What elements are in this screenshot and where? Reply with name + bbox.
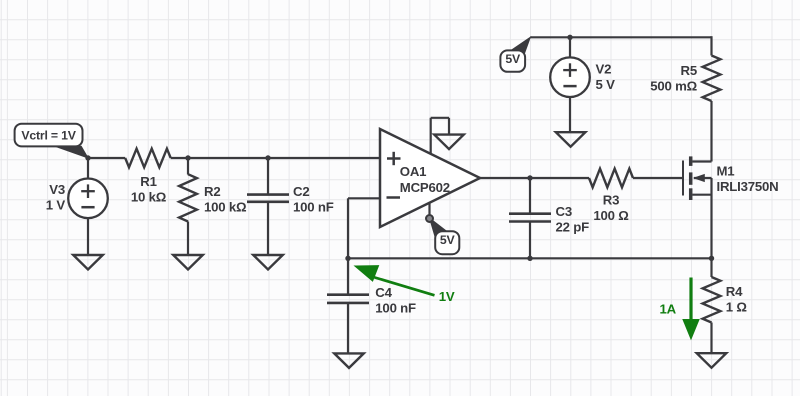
- wire node C to C2: [267, 158, 269, 195]
- label R2: [204, 184, 220, 199]
- svg-text:R4: R4: [726, 284, 743, 299]
- svg-text:5V: 5V: [505, 52, 521, 66]
- value 1 Ohm: [726, 299, 748, 314]
- svg-text:M1: M1: [717, 164, 735, 179]
- wire M1 source to node G: [710, 178, 712, 258]
- resistor R4: [703, 277, 721, 323]
- wire R2 to ground: [187, 222, 189, 256]
- wire C4 to ground: [347, 303, 349, 354]
- svg-text:5 V: 5 V: [596, 77, 616, 92]
- wire inverting input down to node E: [347, 198, 349, 258]
- svg-text:R2: R2: [204, 184, 220, 199]
- svg-text:C4: C4: [375, 285, 392, 300]
- value 5 V: [596, 77, 616, 92]
- net flag 5V top pointer: [511, 37, 530, 55]
- net flag Vctrl pointer: [55, 146, 88, 158]
- node B: [185, 155, 190, 160]
- wire node B to R2: [187, 158, 189, 175]
- op-amp V+ pin node: [426, 215, 433, 222]
- wire R1 to node B: [171, 157, 188, 159]
- net flag 5V at op-amp V+ pin: [435, 231, 459, 254]
- capacitor C2: [247, 195, 289, 202]
- resistor R1: [125, 149, 171, 168]
- wire 5V flag to top right corner: [530, 36, 711, 38]
- annotation arrow 1A: [683, 278, 699, 340]
- wire node D to R3: [530, 177, 589, 179]
- capacitor C4: [327, 295, 369, 303]
- svg-text:1 Ω: 1 Ω: [726, 299, 748, 314]
- node D: [527, 175, 532, 180]
- annotation text 1A: [660, 301, 677, 316]
- net flag 5V top: [500, 50, 525, 71]
- node F: [527, 256, 532, 261]
- op-amp V- pin wire: [431, 118, 449, 154]
- resistor R3: [589, 169, 633, 188]
- label R1: [140, 174, 156, 189]
- ground under V3: [73, 255, 103, 270]
- svg-text:1 V: 1 V: [46, 198, 66, 213]
- wire C2 to ground: [267, 202, 269, 255]
- annotation text 1V: [439, 289, 455, 304]
- wire node H to V2: [569, 37, 571, 58]
- value 500 mOhm: [650, 79, 697, 94]
- svg-text:R1: R1: [140, 174, 156, 189]
- svg-text:22 pF: 22 pF: [556, 220, 590, 235]
- value 100 Ohm: [593, 208, 629, 223]
- resistor R2: [179, 174, 197, 221]
- svg-text:R3: R3: [603, 193, 619, 208]
- label MCP602: [400, 180, 450, 195]
- wire C3 to node F: [529, 222, 531, 259]
- ground under C2: [253, 255, 283, 270]
- value 100 nF: [293, 199, 334, 214]
- node G: [709, 256, 714, 261]
- wire node E to C4: [347, 258, 349, 294]
- svg-text:C3: C3: [556, 204, 572, 219]
- ground at op-amp V- pin: [434, 135, 464, 150]
- label IRLI3750N: [717, 179, 779, 194]
- svg-text:IRLI3750N: IRLI3750N: [717, 179, 779, 194]
- voltage source V3: [68, 179, 108, 219]
- svg-text:100 nF: 100 nF: [293, 199, 334, 214]
- value 100 kOhm: [204, 199, 247, 214]
- svg-text:1V: 1V: [439, 289, 455, 304]
- label OA1: [400, 164, 427, 179]
- wire R5 to M1 drain: [710, 101, 712, 162]
- svg-text:C2: C2: [293, 184, 309, 199]
- wire V2 to ground: [569, 96, 571, 132]
- annotation arrow 1V: [356, 266, 435, 295]
- svg-text:500 mΩ: 500 mΩ: [650, 79, 697, 94]
- wire node C to op-amp noninverting input: [268, 157, 380, 159]
- value 1 V: [46, 198, 66, 213]
- label R5: [681, 63, 697, 78]
- svg-text:Vctrl = 1V: Vctrl = 1V: [21, 129, 76, 143]
- svg-text:100 nF: 100 nF: [375, 300, 416, 315]
- svg-text:V3: V3: [49, 182, 65, 197]
- op-amp OA1: [380, 129, 480, 227]
- net flag Vctrl = 1V: [15, 124, 83, 147]
- node H: [567, 35, 572, 40]
- resistor R5: [703, 56, 721, 102]
- svg-text:MCP602: MCP602: [400, 180, 450, 195]
- op-amp V+ pin wire: [428, 204, 430, 215]
- label C4: [375, 285, 392, 300]
- ground under R4: [697, 353, 727, 368]
- wire node D to C3: [529, 178, 531, 214]
- node A: [85, 155, 90, 160]
- voltage source V2: [550, 57, 590, 97]
- label M1: [717, 164, 735, 179]
- svg-text:1A: 1A: [660, 301, 677, 316]
- capacitor C3: [509, 214, 551, 222]
- wire V3 to ground: [87, 217, 89, 255]
- label R4: [726, 284, 743, 299]
- label V2: [596, 62, 612, 77]
- value 22 pF: [556, 220, 590, 235]
- label R3: [603, 193, 619, 208]
- ground under V2: [556, 132, 586, 147]
- svg-text:100 Ω: 100 Ω: [593, 208, 629, 223]
- label C2: [293, 184, 309, 199]
- node E: [345, 256, 350, 261]
- svg-text:V2: V2: [596, 62, 612, 77]
- net flag 5V at op-amp V+ pin pointer: [430, 218, 447, 241]
- wire node G to R4: [710, 258, 712, 277]
- svg-text:OA1: OA1: [400, 164, 427, 179]
- svg-text:5V: 5V: [440, 233, 456, 247]
- label V3: [49, 182, 65, 197]
- wire op-amp inverting input: [348, 197, 380, 199]
- label C3: [556, 204, 572, 219]
- wire R3 to M1 gate: [633, 177, 683, 179]
- wire op-amp output to node D: [480, 177, 530, 179]
- value 100 nF 2: [375, 300, 416, 315]
- svg-text:10 kΩ: 10 kΩ: [131, 190, 167, 205]
- wire node A to R1: [88, 157, 125, 159]
- wire node A to V3: [87, 158, 89, 180]
- ground under R2: [173, 255, 203, 270]
- node C: [265, 155, 270, 160]
- svg-text:R5: R5: [681, 63, 697, 78]
- feedback wire node E to node G: [348, 257, 712, 259]
- svg-text:100 kΩ: 100 kΩ: [204, 199, 247, 214]
- wire corner down to R5: [710, 36, 712, 55]
- wire node B to node C: [188, 157, 268, 159]
- ground under C4: [334, 353, 364, 368]
- wire R4 to ground: [710, 323, 712, 354]
- value 10 kOhm: [131, 190, 167, 205]
- transistor M1: [683, 156, 712, 200]
